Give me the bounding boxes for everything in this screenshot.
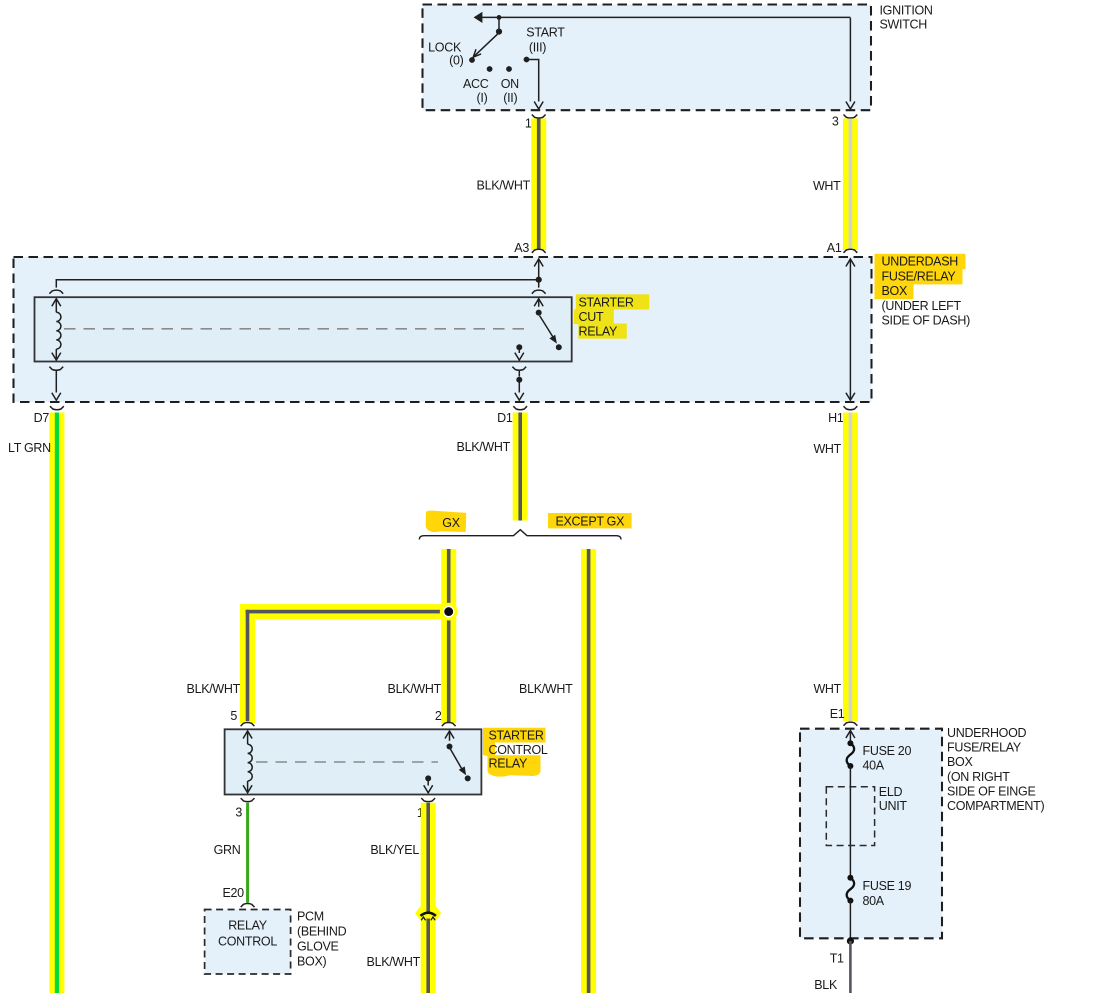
wire WHT ignition pin3 to A1 bbox=[813, 119, 858, 251]
node D7 bbox=[34, 406, 64, 425]
svg-text:(III): (III) bbox=[529, 40, 546, 54]
node H1 bbox=[828, 406, 857, 425]
starter cut relay mechanical link bbox=[64, 328, 527, 330]
svg-text:3: 3 bbox=[832, 115, 839, 129]
svg-text:RELAY: RELAY bbox=[228, 918, 268, 932]
wire BLK/WHT EXCEPT GX branch bbox=[519, 549, 596, 993]
pin 1 bbox=[525, 115, 546, 131]
svg-text:BLK/WHT: BLK/WHT bbox=[187, 682, 241, 696]
svg-text:RELAY: RELAY bbox=[489, 756, 529, 770]
wire junction to coil bbox=[56, 280, 538, 288]
svg-text:BLK/WHT: BLK/WHT bbox=[388, 682, 442, 696]
starter control relay label bbox=[483, 728, 548, 777]
svg-text:FUSE/RELAY: FUSE/RELAY bbox=[947, 741, 1022, 755]
svg-text:2: 2 bbox=[435, 709, 442, 723]
split brace bbox=[419, 530, 621, 540]
svg-text:(ON RIGHT: (ON RIGHT bbox=[947, 770, 1010, 784]
node coil feed junction bbox=[536, 277, 542, 283]
svg-text:BLK/YEL: BLK/YEL bbox=[370, 843, 419, 857]
svg-text:STARTER: STARTER bbox=[579, 296, 634, 310]
underhood box label bbox=[947, 726, 1044, 813]
svg-text:ON: ON bbox=[501, 77, 519, 91]
contact ON (II) bbox=[501, 66, 519, 105]
wire A1 to H1 passthrough bbox=[846, 259, 855, 400]
svg-text:GLOVE: GLOVE bbox=[297, 940, 339, 954]
svg-text:BLK/WHT: BLK/WHT bbox=[477, 179, 531, 193]
svg-text:EXCEPT GX: EXCEPT GX bbox=[555, 515, 625, 529]
PCM label bbox=[297, 910, 347, 969]
wire BLK bbox=[814, 941, 850, 993]
node D1 bbox=[497, 406, 527, 425]
svg-text:COMPARTMENT): COMPARTMENT) bbox=[947, 799, 1044, 813]
svg-text:(I): (I) bbox=[477, 91, 488, 105]
label EXCEPT GX bbox=[548, 513, 632, 529]
svg-text:CONTROL: CONTROL bbox=[218, 934, 277, 948]
wire WHT H1 to E1 bbox=[813, 413, 857, 722]
wire LT GRN bbox=[8, 413, 64, 993]
svg-text:ACC: ACC bbox=[463, 77, 489, 91]
starter control relay switch bbox=[424, 731, 471, 793]
svg-text:A1: A1 bbox=[827, 241, 842, 255]
svg-text:E20: E20 bbox=[222, 886, 244, 900]
svg-text:(0): (0) bbox=[449, 54, 464, 68]
svg-text:LT GRN: LT GRN bbox=[8, 441, 51, 455]
coil output to D7 bbox=[49, 367, 63, 401]
svg-text:UNDERHOOD: UNDERHOOD bbox=[947, 726, 1027, 740]
switch blade to LOCK bbox=[473, 33, 499, 57]
wire BLK/YEL pin1 down bbox=[367, 803, 442, 993]
svg-text:RELAY: RELAY bbox=[579, 325, 619, 339]
svg-text:CONTROL: CONTROL bbox=[489, 743, 548, 757]
svg-text:BOX: BOX bbox=[947, 755, 973, 769]
svg-text:H1: H1 bbox=[828, 411, 844, 425]
wire BLK/WHT GX branch bbox=[388, 549, 457, 723]
svg-text:ELD: ELD bbox=[879, 785, 903, 799]
node E1 bbox=[830, 707, 858, 725]
node ignition pivot junction bbox=[496, 15, 502, 35]
inline connector on BLK/YEL bbox=[421, 913, 436, 921]
svg-text:BLK/WHT: BLK/WHT bbox=[367, 955, 421, 969]
underhood fuse/relay box bbox=[800, 729, 942, 939]
svg-text:5: 5 bbox=[230, 709, 237, 723]
junction GX/pin2 bbox=[440, 603, 458, 621]
label GX bbox=[426, 511, 467, 533]
svg-text:BLK: BLK bbox=[814, 978, 838, 992]
svg-text:BOX): BOX) bbox=[297, 955, 326, 969]
svg-text:D1: D1 bbox=[497, 411, 513, 425]
svg-text:PCM: PCM bbox=[297, 910, 324, 924]
ignition switch label bbox=[880, 4, 933, 32]
fuse 20 40A bbox=[847, 740, 912, 772]
svg-text:80A: 80A bbox=[863, 894, 885, 908]
fuse 19 80A bbox=[847, 875, 912, 908]
PCM relay control box bbox=[205, 910, 291, 975]
svg-text:WHT: WHT bbox=[813, 682, 841, 696]
switch-side female cup bbox=[532, 290, 546, 294]
wire BLK/WHT D1 stub bbox=[457, 413, 528, 521]
svg-text:E1: E1 bbox=[830, 707, 845, 721]
svg-text:STARTER: STARTER bbox=[489, 729, 544, 743]
starter cut relay label bbox=[574, 294, 650, 338]
wire fuse20 to fuse19 bbox=[849, 766, 851, 878]
underdash box label bbox=[875, 254, 971, 328]
svg-text:SIDE OF DASH): SIDE OF DASH) bbox=[882, 313, 971, 327]
svg-text:T1: T1 bbox=[830, 951, 844, 965]
node A1 bbox=[827, 241, 858, 255]
svg-text:WHT: WHT bbox=[813, 179, 841, 193]
wire START to pin 1 bbox=[529, 60, 543, 110]
switch output to D1 bbox=[512, 367, 526, 401]
svg-text:SWITCH: SWITCH bbox=[880, 18, 928, 32]
svg-text:1: 1 bbox=[525, 117, 532, 131]
svg-text:(UNDER LEFT: (UNDER LEFT bbox=[882, 299, 962, 313]
contact ACC (I) bbox=[463, 66, 493, 105]
terminal E1 male arrow bbox=[846, 731, 855, 744]
svg-text:(BEHIND: (BEHIND bbox=[297, 924, 347, 938]
svg-text:LOCK: LOCK bbox=[428, 40, 462, 54]
svg-text:CUT: CUT bbox=[579, 310, 604, 324]
svg-text:A3: A3 bbox=[514, 241, 529, 255]
svg-text:GX: GX bbox=[442, 516, 460, 530]
svg-text:IGNITION: IGNITION bbox=[880, 4, 933, 18]
contact START (III) bbox=[524, 25, 566, 62]
starter cut relay switch bbox=[515, 299, 562, 360]
starter cut relay K1 bbox=[35, 297, 572, 361]
svg-text:3: 3 bbox=[235, 805, 242, 819]
contact LOCK (0) bbox=[428, 40, 475, 67]
starter cut relay coil bbox=[52, 299, 61, 360]
svg-text:GRN: GRN bbox=[214, 843, 241, 857]
svg-text:40A: 40A bbox=[863, 758, 885, 772]
underdash fuse/relay box bbox=[14, 257, 872, 402]
wire branch to pin 5 bbox=[187, 604, 457, 723]
pin 1 bbox=[417, 798, 435, 820]
wire BLK/WHT ignition pin1 to A3 bbox=[477, 119, 547, 251]
wire GRN bbox=[214, 803, 248, 903]
pin 2 bbox=[435, 709, 456, 726]
starter control relay mechanical link bbox=[256, 761, 438, 763]
terminal A3 male arrow bbox=[534, 259, 543, 280]
wire fuse19 to T1 bbox=[849, 901, 851, 941]
node T1 bbox=[830, 937, 854, 965]
ignition switch box S1 bbox=[423, 5, 872, 111]
svg-text:UNDERDASH: UNDERDASH bbox=[882, 255, 959, 269]
svg-text:BLK/WHT: BLK/WHT bbox=[457, 440, 511, 454]
svg-text:(II): (II) bbox=[503, 91, 517, 105]
svg-text:WHT: WHT bbox=[813, 442, 841, 456]
node E20 bbox=[222, 886, 254, 907]
pin 3 bbox=[832, 115, 857, 129]
svg-text:FUSE 19: FUSE 19 bbox=[863, 879, 912, 893]
coil-side female cup bbox=[49, 290, 63, 294]
svg-text:D7: D7 bbox=[34, 411, 50, 425]
starter control relay coil bbox=[243, 731, 252, 793]
svg-text:SIDE OF EINGE: SIDE OF EINGE bbox=[947, 785, 1035, 799]
svg-text:UNIT: UNIT bbox=[879, 799, 908, 813]
svg-text:FUSE/RELAY: FUSE/RELAY bbox=[882, 270, 957, 284]
svg-text:BLK/WHT: BLK/WHT bbox=[519, 682, 573, 696]
svg-text:BOX: BOX bbox=[882, 284, 908, 298]
svg-text:START: START bbox=[526, 25, 565, 39]
pin 3 bbox=[235, 798, 254, 819]
starter control relay K2 bbox=[225, 729, 482, 794]
ELD unit bbox=[826, 785, 907, 846]
wire to pin 3 bbox=[846, 18, 855, 109]
svg-text:FUSE 20: FUSE 20 bbox=[863, 744, 912, 758]
node A3 bbox=[514, 241, 545, 255]
wire ignition feed top bbox=[474, 12, 851, 23]
pin 5 bbox=[230, 709, 254, 726]
